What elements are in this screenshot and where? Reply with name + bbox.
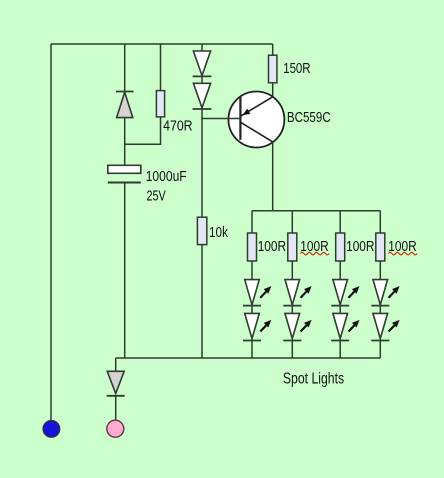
wire LED top rail xyxy=(252,210,380,212)
wire column 3 upper xyxy=(339,211,341,233)
wire zener branch upper xyxy=(124,44,126,92)
capacitor C1 1000uF 25V (polarized) xyxy=(108,165,141,182)
wire bottom rail xyxy=(116,357,381,359)
diode D1 (gray, cathode up) xyxy=(116,92,134,118)
LED column 4 row 2 xyxy=(371,306,399,341)
LED column 1 row 1 xyxy=(243,261,271,306)
wire column 3 to bottom rail xyxy=(339,341,341,359)
wire diode to pink terminal xyxy=(115,396,117,421)
wire 150R branch upper xyxy=(272,44,274,55)
resistor 150R xyxy=(269,55,277,83)
LED column 3 row 1 xyxy=(331,261,359,306)
diode D4 (gray, cathode down) xyxy=(107,371,125,396)
diode D3 (white, cathode down) xyxy=(193,83,212,109)
resistor 470R xyxy=(156,91,164,117)
LED column 2 row 2 xyxy=(283,306,311,341)
spellcheck squiggle under column 4 label xyxy=(388,252,417,255)
resistor 100R (column 3) xyxy=(336,233,345,261)
resistor 10k xyxy=(197,217,206,244)
node blue terminal xyxy=(43,421,60,438)
spellcheck squiggle under column 2 label xyxy=(300,252,329,255)
diode D2 (white, cathode down) xyxy=(193,51,212,76)
LED column 1 row 2 xyxy=(243,306,271,341)
svg-text:470R: 470R xyxy=(163,118,193,134)
wire 10k to bottom rail xyxy=(201,245,203,358)
wire top supply rail xyxy=(51,43,273,45)
svg-text:100R: 100R xyxy=(258,239,286,255)
wire base connection xyxy=(202,118,240,120)
wire collector to LED rail xyxy=(272,142,274,210)
wire between diodes xyxy=(201,76,203,83)
resistor 100R (column 2) xyxy=(288,233,297,261)
wire bottom rail to output diode xyxy=(115,358,117,371)
svg-text:1000uF: 1000uF xyxy=(146,169,187,185)
svg-text:150R: 150R xyxy=(283,61,310,77)
resistor 100R (column 4) xyxy=(376,233,385,261)
wire diode chain upper xyxy=(201,44,203,51)
wire column 2 upper xyxy=(291,211,293,233)
wire column 4 to bottom rail xyxy=(379,341,381,359)
transistor Q1 BC559C (PNP) xyxy=(228,92,284,148)
wire 470R branch upper xyxy=(160,44,162,91)
node pink terminal xyxy=(107,420,124,437)
svg-text:Spot Lights: Spot Lights xyxy=(283,371,344,388)
wire column 2 to bottom rail xyxy=(291,341,293,359)
svg-text:BC559C: BC559C xyxy=(287,110,331,126)
wire diode to capacitor xyxy=(124,118,126,166)
wire column 1 upper xyxy=(251,211,253,233)
svg-text:25V: 25V xyxy=(147,189,167,205)
svg-text:100R: 100R xyxy=(346,239,374,255)
svg-text:10k: 10k xyxy=(209,225,229,241)
wire column 4 upper xyxy=(379,211,381,233)
LED column 3 row 2 xyxy=(331,306,359,341)
wire diode chain to 10k xyxy=(201,109,203,217)
wire capacitor to bottom rail xyxy=(124,183,126,359)
resistor 100R (column 1) xyxy=(248,233,257,261)
LED column 4 row 1 xyxy=(371,261,399,306)
wire 470R lower lead to zener branch xyxy=(125,117,161,144)
wire left supply drop xyxy=(50,44,52,421)
wire 150R to emitter xyxy=(272,83,274,97)
wire column 1 to bottom rail xyxy=(251,341,253,359)
LED column 2 row 1 xyxy=(283,261,311,306)
